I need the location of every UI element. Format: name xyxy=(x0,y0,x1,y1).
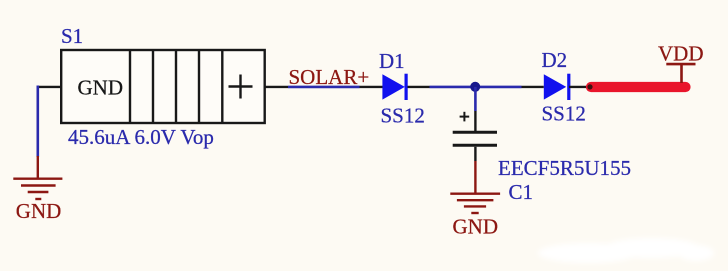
S1 internal divider 4 xyxy=(198,50,200,123)
ground symbol right stem xyxy=(474,161,476,193)
D2 cathode pin xyxy=(569,86,591,88)
S1 right pin xyxy=(265,86,288,88)
wire left vertical xyxy=(36,86,39,158)
solar cell S1 body xyxy=(61,50,265,123)
svg-text:GND: GND xyxy=(16,199,62,223)
C1 plus mark xyxy=(460,112,470,122)
junction dot under red wire xyxy=(587,84,592,89)
ground symbol right bars xyxy=(450,194,500,213)
svg-text:GND: GND xyxy=(78,76,124,100)
D1 cathode pin xyxy=(408,86,430,88)
svg-text:D2: D2 xyxy=(542,48,568,72)
svg-text:SS12: SS12 xyxy=(381,103,425,127)
diode D1 xyxy=(382,74,406,100)
D1 anode pin xyxy=(360,86,383,88)
VDD power symbol stem xyxy=(680,64,683,83)
wire SOLAR+ xyxy=(288,86,360,89)
C1 top pin xyxy=(474,111,476,131)
ground symbol left bars xyxy=(13,179,62,199)
svg-text:45.6uA 6.0V Vop: 45.6uA 6.0V Vop xyxy=(68,125,214,149)
diode D2 xyxy=(544,74,569,100)
watermark blob (whitened area) xyxy=(538,238,714,263)
VDD thick red net wire xyxy=(591,82,686,92)
S1 internal divider 3 xyxy=(175,50,177,123)
S1 left pin xyxy=(37,86,61,88)
svg-text:D1: D1 xyxy=(379,49,405,73)
svg-text:SS12: SS12 xyxy=(542,101,586,125)
wire D1 to junction to D2 xyxy=(430,86,522,89)
S1 internal divider 2 xyxy=(152,50,154,123)
svg-text:EECF5R5U155: EECF5R5U155 xyxy=(498,156,631,180)
svg-text:S1: S1 xyxy=(61,24,83,48)
VDD power symbol bar xyxy=(666,63,695,66)
capacitor C1 plates xyxy=(453,132,497,145)
svg-text:SOLAR+: SOLAR+ xyxy=(289,65,370,89)
C1 bottom pin xyxy=(474,147,476,161)
D2 anode pin xyxy=(522,86,544,88)
svg-text:VDD: VDD xyxy=(658,41,704,65)
S1 internal divider 1 xyxy=(129,50,131,123)
S1 internal divider 5 xyxy=(221,50,223,123)
ground symbol left stem xyxy=(37,156,39,178)
wire junction down xyxy=(474,87,477,111)
svg-text:C1: C1 xyxy=(509,180,534,204)
svg-text:GND: GND xyxy=(453,214,499,238)
plus sign inside S1 xyxy=(229,75,253,99)
junction node xyxy=(470,82,480,92)
